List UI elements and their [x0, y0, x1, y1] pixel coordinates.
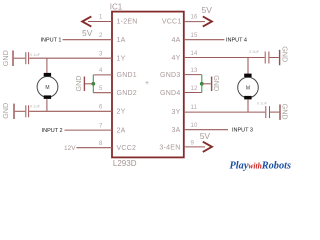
svg-text:1: 1 [99, 15, 103, 21]
pin number 15 [191, 33, 199, 39]
INPUT 2 net label [42, 128, 63, 134]
svg-text:+: + [145, 80, 149, 87]
svg-text:GND4: GND4 [160, 90, 180, 97]
svg-text:0.1uF: 0.1uF [257, 100, 268, 105]
svg-text:INPUT 4: INPUT 4 [226, 38, 247, 44]
5V label top right [202, 5, 213, 15]
svg-text:11: 11 [191, 105, 198, 111]
wire junction to ground right [202, 83, 211, 85]
ground symbol pins 4-5 [74, 76, 85, 92]
wire pin15 INPUT 4 [184, 39, 225, 41]
5V supply arrow bottom right [203, 142, 212, 152]
svg-text:6: 6 [99, 105, 103, 111]
svg-text:3.3uF: 3.3uF [249, 49, 260, 54]
IC pin name 3Y [171, 109, 180, 116]
capacitor C1 plates [26, 52, 29, 64]
svg-text:5V: 5V [82, 28, 93, 38]
wire motor M1 top [46, 58, 48, 73]
wire pin16 to 5V arrow [184, 21, 205, 23]
ground symbol pins 12-13 [212, 75, 221, 91]
IC IC1 body [112, 12, 184, 158]
svg-text:GND: GND [1, 50, 10, 66]
pin13 stub [184, 74, 202, 76]
pin5 stub [93, 92, 112, 94]
INPUT 3 net label [232, 128, 253, 134]
L293D value label [113, 159, 137, 168]
wire motor M1 bottom [46, 99, 48, 111]
wire GND to capacitor C1 [14, 57, 25, 59]
svg-text:9: 9 [191, 141, 195, 147]
wire GND to capacitor C2 [15, 110, 25, 112]
junction dot pins 4-5 [91, 82, 95, 86]
pin number 6 [99, 105, 103, 111]
IC pin name 2A [117, 127, 126, 134]
pin number 10 [191, 123, 199, 129]
ground symbol left C1 [1, 50, 13, 66]
svg-text:INPUT 1: INPUT 1 [41, 38, 62, 44]
svg-text:0.1uF: 0.1uF [30, 52, 41, 57]
INPUT 1 net label [41, 38, 62, 44]
pin number 5 [99, 86, 103, 92]
junction dot pins 12-13 [200, 82, 204, 86]
svg-text:4: 4 [99, 68, 103, 74]
INPUT 4 net label [226, 38, 247, 44]
pin number 13 [191, 68, 199, 74]
svg-text:5: 5 [99, 86, 103, 92]
svg-text:4A: 4A [171, 37, 180, 44]
wire pin14 4Y net [184, 57, 265, 59]
svg-text:M: M [45, 85, 49, 91]
IC pin name GND2 [117, 90, 137, 97]
svg-text:VCC2: VCC2 [117, 145, 137, 152]
svg-text:5V: 5V [200, 131, 211, 141]
IC pin name GND4 [160, 90, 180, 97]
IC pin name 2Y [117, 109, 126, 116]
pin number 14 [191, 51, 199, 57]
svg-text:GND: GND [1, 103, 10, 119]
pin number 9 [191, 141, 195, 147]
pin number 7 [99, 123, 103, 129]
pin number 1 [99, 15, 103, 21]
IC1 refdes label [110, 3, 123, 12]
IC pin name 1Y [117, 55, 126, 62]
wire pin7 INPUT 2 [65, 129, 113, 131]
ground symbol right C4 [280, 104, 289, 120]
svg-text:GND: GND [280, 104, 289, 120]
wire pin11 3Y net [184, 111, 265, 113]
IC pin name 3A [171, 127, 180, 134]
svg-text:15: 15 [191, 33, 199, 39]
ground symbol left C2 [1, 103, 14, 119]
svg-text:1Y: 1Y [117, 55, 126, 62]
pin4 stub [93, 74, 112, 76]
capacitor C4 value 0.1uF [257, 100, 268, 105]
svg-text:3-4EN: 3-4EN [159, 145, 180, 152]
ground symbol right C3 [280, 46, 290, 65]
IC pin name 4A [171, 37, 180, 44]
svg-text:GND: GND [280, 46, 289, 62]
svg-text:2A: 2A [117, 127, 126, 134]
svg-text:12V: 12V [64, 145, 76, 152]
wire pin8 12V [76, 147, 112, 149]
5V label bottom right [200, 131, 211, 141]
wire pin2 INPUT 1 [63, 39, 113, 41]
svg-text:3Y: 3Y [171, 109, 180, 116]
svg-text:1-2EN: 1-2EN [117, 19, 138, 26]
5V label left [82, 28, 93, 38]
wire pin10 INPUT 3 [184, 129, 228, 131]
svg-text:L293D: L293D [113, 159, 137, 168]
motor M1 [37, 73, 58, 99]
svg-text:GND3: GND3 [160, 72, 180, 79]
svg-text:M: M [246, 86, 250, 92]
pin number 3 [99, 52, 103, 58]
svg-text:7: 7 [99, 123, 103, 129]
pin number 16 [191, 15, 199, 21]
IC pin name VCC1 [162, 19, 182, 26]
svg-text:INPUT 2: INPUT 2 [42, 128, 63, 134]
svg-text:3A: 3A [171, 127, 180, 134]
5V supply arrow top right [203, 16, 212, 26]
5V supply arrow left [82, 16, 91, 26]
wire pin6 2Y net [29, 110, 112, 112]
IC pin name GND1 [117, 72, 137, 79]
svg-text:5V: 5V [202, 5, 213, 15]
IC center mark [145, 80, 149, 87]
wire junction to ground left [85, 83, 93, 85]
wire pin9 to 5V arrow [184, 146, 205, 148]
IC pin name 1-2EN [117, 19, 138, 26]
svg-text:1A: 1A [117, 37, 126, 44]
svg-text:0.1uF: 0.1uF [30, 104, 41, 109]
svg-text:GND: GND [212, 75, 221, 91]
svg-text:10: 10 [191, 123, 199, 129]
GND net tie pins 4-5 [92, 75, 94, 93]
svg-text:2Y: 2Y [117, 109, 126, 116]
svg-text:4Y: 4Y [171, 55, 180, 62]
PlayWithRobots logo [230, 159, 292, 171]
svg-text:14: 14 [191, 51, 199, 57]
svg-text:INPUT 3: INPUT 3 [232, 128, 253, 134]
motor M2 [238, 74, 259, 100]
wire capacitor C3 to ground [270, 57, 279, 59]
svg-text:8: 8 [99, 141, 103, 147]
capacitor C1 value 0.1uF [30, 52, 41, 57]
wire pin3 1Y net [29, 57, 112, 59]
pin number 12 [191, 86, 199, 92]
IC pin name 4Y [171, 55, 180, 62]
IC pin name 1A [117, 37, 126, 44]
pin number 4 [99, 68, 103, 74]
svg-text:GND: GND [74, 76, 83, 92]
wire motor M2 top [247, 58, 249, 75]
svg-text:16: 16 [191, 15, 199, 21]
capacitor C4 plates [266, 106, 270, 118]
wire pin1 to 5V arrow [88, 21, 112, 23]
capacitor C3 plates [265, 52, 269, 64]
svg-text:PlaywithRobots: PlaywithRobots [230, 159, 292, 171]
IC pin name VCC2 [117, 145, 137, 152]
capacitor C2 plates [26, 105, 29, 117]
svg-text:GND1: GND1 [117, 72, 137, 79]
pin12 stub [184, 92, 202, 94]
svg-text:13: 13 [191, 68, 199, 74]
wire capacitor C4 to ground [270, 111, 279, 113]
svg-text:3: 3 [99, 52, 103, 58]
12V net label [64, 145, 76, 152]
pin number 2 [99, 33, 103, 39]
IC pin name 3-4EN [159, 145, 180, 152]
svg-text:GND2: GND2 [117, 90, 137, 97]
GND net tie pins 12-13 [201, 75, 203, 93]
svg-text:12: 12 [191, 86, 199, 92]
pin number 8 [99, 141, 103, 147]
svg-text:IC1: IC1 [110, 3, 123, 12]
svg-text:2: 2 [99, 33, 103, 39]
capacitor C2 value 0.1uF [30, 104, 41, 109]
IC pin name GND3 [160, 72, 180, 79]
capacitor C3 value 3.3uF [249, 49, 260, 54]
pin number 11 [191, 105, 198, 111]
svg-text:VCC1: VCC1 [162, 19, 182, 26]
wire motor M2 bottom [247, 99, 249, 112]
